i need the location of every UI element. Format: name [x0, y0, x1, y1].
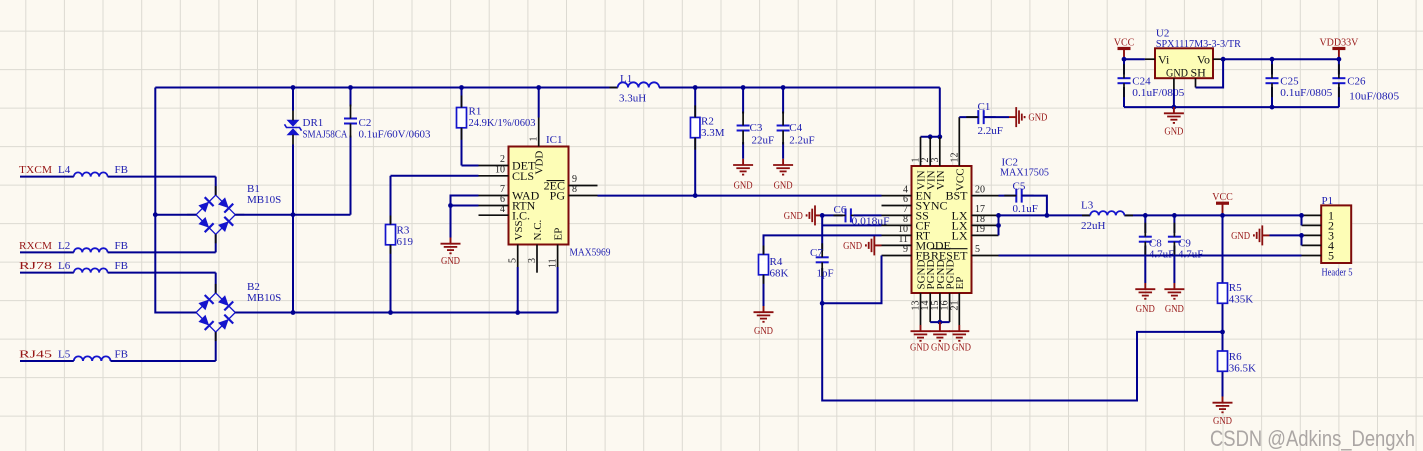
- svg-text:IC1: IC1: [546, 134, 563, 146]
- svg-text:PG: PG: [550, 189, 566, 203]
- svg-text:SH: SH: [1191, 66, 1207, 80]
- capacitor C2: [350, 88, 352, 107]
- wire rail corner down to IC2 VIN: [939, 88, 941, 137]
- svg-text:RJ45: RJ45: [19, 349, 53, 361]
- node C25 top junction: [1270, 57, 1275, 62]
- capacitor C5: [999, 195, 1017, 197]
- svg-text:24.9K/1%/0603: 24.9K/1%/0603: [469, 117, 536, 129]
- pin 10 CLS: [479, 175, 509, 177]
- svg-text:5: 5: [975, 244, 980, 255]
- node SS junction: [820, 213, 825, 218]
- node R2 bottom junction: [693, 193, 698, 198]
- svg-text:GND: GND: [1166, 66, 1188, 80]
- ground GND at C8: [1144, 283, 1146, 289]
- pin 19 LX: [972, 234, 999, 236]
- svg-text:GND: GND: [931, 343, 950, 354]
- wire top rail right: [659, 87, 940, 89]
- svg-text:GND: GND: [1028, 113, 1047, 124]
- bridge rectifier B2: [196, 293, 235, 332]
- power ground at C1: [1009, 116, 1016, 118]
- wire VSS down: [517, 267, 519, 313]
- svg-text:DR1: DR1: [303, 117, 324, 129]
- regulator U2 SPX1117 body: [1155, 48, 1213, 78]
- resistor R3: [390, 176, 392, 225]
- wire WAD/RTN tie: [451, 196, 479, 206]
- node C8 junction: [1143, 213, 1148, 218]
- svg-text:10: 10: [495, 165, 505, 176]
- svg-text:21: 21: [949, 301, 960, 311]
- ground GND at SGND: [920, 325, 922, 331]
- wire U2 GND drop: [1173, 89, 1175, 107]
- pin 7 SS: [882, 214, 912, 216]
- node R3 bottom junction: [388, 310, 393, 315]
- resistor R2: [694, 88, 696, 118]
- wire U2 bottom rail: [1124, 106, 1339, 108]
- svg-text:LX: LX: [952, 229, 968, 243]
- svg-text:RXCM: RXCM: [19, 240, 52, 252]
- wire left bus vertical: [155, 88, 196, 313]
- node Vo junction: [1221, 57, 1226, 62]
- svg-text:R2: R2: [701, 116, 714, 128]
- svg-text:SMAJ58CA: SMAJ58CA: [303, 129, 348, 141]
- svg-text:RJ78: RJ78: [19, 260, 53, 272]
- svg-text:L6: L6: [58, 260, 71, 272]
- svg-text:4: 4: [500, 204, 505, 215]
- pin 1 VDD: [538, 118, 540, 147]
- power ground at SS: [815, 214, 822, 216]
- wire pin1-pin2 tie: [1301, 215, 1303, 225]
- wire LX tie: [998, 215, 1000, 235]
- pin Vi: [1145, 58, 1155, 60]
- pin 9 FB: [882, 255, 912, 257]
- svg-text:GND: GND: [910, 343, 929, 354]
- pin 8 PG: [569, 195, 598, 197]
- TVS diode DR1: [292, 88, 294, 111]
- svg-text:GND: GND: [774, 181, 793, 192]
- node C25 bottom junction: [1270, 105, 1275, 110]
- wire DR1 column to B2 right row: [292, 215, 294, 313]
- wire TXCM to B1 top: [215, 177, 217, 196]
- svg-text:TXCM: TXCM: [19, 164, 52, 176]
- ground GND at C9: [1173, 283, 1175, 289]
- svg-text:3: 3: [527, 258, 538, 263]
- node B1 left junction: [153, 212, 158, 217]
- wire SH loop: [1196, 59, 1224, 87]
- wire R1 to IC1 DET: [462, 165, 479, 167]
- ground GND at C4: [782, 159, 784, 165]
- wire FB loop: [822, 256, 881, 304]
- pin 11 EP: [557, 245, 559, 268]
- svg-text:MAX5969: MAX5969: [570, 246, 611, 258]
- wire: [20, 272, 74, 274]
- svg-text:3.3M: 3.3M: [701, 127, 725, 139]
- pin 1 VIN: [920, 137, 922, 166]
- pin 4 EN: [882, 195, 912, 197]
- svg-text:2.2uF: 2.2uF: [789, 135, 814, 147]
- svg-text:22uF: 22uF: [752, 135, 775, 147]
- wire CLS row: [391, 175, 479, 177]
- svg-text:3.3uH: 3.3uH: [619, 93, 646, 105]
- resistor R6: [1222, 371, 1224, 396]
- svg-text:GND: GND: [734, 181, 753, 192]
- power VCC at U2: [1118, 47, 1131, 50]
- svg-text:C25: C25: [1280, 75, 1299, 87]
- svg-text:L5: L5: [58, 349, 71, 361]
- power VCC: [1216, 202, 1229, 205]
- svg-text:VIN: VIN: [935, 170, 947, 190]
- op-amp U IC2 MAX17505 body: [912, 166, 972, 293]
- svg-text:VDD33V: VDD33V: [1319, 37, 1359, 48]
- svg-text:3: 3: [930, 158, 941, 163]
- wire top rail left: [155, 87, 617, 89]
- power ground at MODE: [874, 244, 881, 246]
- svg-text:GND: GND: [1164, 127, 1183, 138]
- wire PGND tie bar: [930, 321, 949, 323]
- svg-text:8: 8: [572, 184, 577, 195]
- svg-text:R1: R1: [469, 106, 482, 118]
- node VSS junction: [515, 310, 520, 315]
- pin 3 N.C.: [536, 245, 538, 273]
- svg-text:C4: C4: [789, 122, 802, 134]
- svg-text:R4: R4: [770, 256, 783, 268]
- wire VCC to Vi: [1124, 58, 1145, 60]
- svg-text:0.1uF/0805: 0.1uF/0805: [1132, 87, 1185, 99]
- pin 1: [1302, 214, 1322, 216]
- pin 17 LX: [972, 214, 999, 216]
- wire B1 left: [155, 214, 196, 216]
- wire CF to column: [822, 224, 881, 226]
- svg-text:L3: L3: [1081, 200, 1094, 212]
- svg-text:MB10S: MB10S: [247, 194, 281, 206]
- svg-text:R3: R3: [397, 225, 410, 237]
- pin 6 SYNC: [882, 205, 912, 207]
- ground GND at IC1: [450, 238, 452, 244]
- capacitor C26: [1338, 59, 1340, 74]
- svg-text:C1: C1: [978, 101, 991, 113]
- svg-text:CSDN @Adkins_Dengxh: CSDN @Adkins_Dengxh: [1210, 426, 1415, 451]
- svg-text:68K: 68K: [770, 267, 789, 279]
- wire B2 right row to IC1 EP: [235, 312, 557, 314]
- svg-text:Vi: Vi: [1158, 52, 1170, 66]
- wire B1 right to C2 bottom: [235, 214, 350, 216]
- svg-text:R6: R6: [1229, 351, 1242, 363]
- svg-text:C24: C24: [1132, 75, 1151, 87]
- svg-text:9: 9: [903, 244, 908, 255]
- svg-text:GND: GND: [843, 241, 862, 252]
- pin Vo: [1213, 58, 1223, 60]
- op-amp U IC1 MAX5969 body: [509, 147, 569, 245]
- pin 4 I.C.: [479, 214, 509, 216]
- svg-text:20: 20: [975, 184, 985, 195]
- svg-text:FB: FB: [115, 349, 128, 361]
- wire VIN bus bar: [921, 136, 940, 138]
- svg-text:P1: P1: [1322, 195, 1334, 207]
- node R5/R6 junction: [1220, 330, 1225, 335]
- svg-text:619: 619: [397, 236, 414, 248]
- power ground at P1: [1270, 234, 1302, 236]
- svg-text:0.1uF/60V/0603: 0.1uF/60V/0603: [359, 129, 431, 141]
- svg-text:36.5K: 36.5K: [1229, 362, 1256, 374]
- svg-text:EP: EP: [553, 228, 565, 241]
- pin 13 SGND: [920, 293, 922, 325]
- svg-text:435K: 435K: [1229, 293, 1254, 305]
- wire RJ45 to B2 bottom: [215, 332, 217, 361]
- wire Vo to VDD33V: [1223, 58, 1339, 60]
- pin 8 CF: [882, 224, 912, 226]
- svg-text:SPX1117M3-3-3/TR: SPX1117M3-3-3/TR: [1156, 38, 1242, 50]
- svg-text:FB: FB: [115, 260, 128, 272]
- pin GND U2: [1173, 78, 1175, 89]
- wire: [20, 251, 74, 253]
- capacitor C3: [742, 88, 744, 114]
- svg-text:L2: L2: [58, 240, 70, 252]
- svg-text:C2: C2: [359, 117, 372, 129]
- node DR1 bottom junction: [291, 212, 296, 217]
- svg-text:12: 12: [949, 153, 960, 163]
- svg-text:CLS: CLS: [512, 169, 534, 183]
- pin 9 2EC: [569, 185, 598, 187]
- node VCC junction U2: [1122, 57, 1127, 62]
- pin 3 VIN: [939, 137, 941, 166]
- ground GND at EP: [958, 325, 960, 331]
- svg-text:10uF/0805: 10uF/0805: [1349, 90, 1400, 102]
- pin 20 BST: [972, 195, 999, 197]
- node U2 GND junction: [1172, 105, 1177, 110]
- svg-text:GND: GND: [1136, 304, 1155, 315]
- svg-text:R5: R5: [1229, 282, 1242, 294]
- svg-text:11: 11: [548, 258, 559, 268]
- wire VDD to rail: [538, 88, 540, 118]
- svg-text:C3: C3: [750, 122, 763, 134]
- pin 7 WAD: [479, 195, 509, 197]
- node C7 bottom junction: [820, 301, 825, 306]
- pin 16 PGND: [949, 293, 951, 322]
- pin 2: [1302, 224, 1322, 226]
- pin 12 VCC: [958, 117, 960, 166]
- svg-text:C6: C6: [834, 204, 847, 216]
- ground GND at U2: [1173, 107, 1175, 113]
- pin 5 RESET: [972, 255, 999, 257]
- node B2 right row junction: [291, 310, 296, 315]
- wire: [20, 360, 74, 362]
- wire EP down: [557, 267, 559, 313]
- wire pin3-pin4 tie: [1301, 235, 1303, 245]
- wire RTN to ground: [450, 206, 452, 238]
- pin SH: [1195, 78, 1197, 87]
- ground GND at R6: [1222, 397, 1224, 403]
- svg-text:GND: GND: [754, 326, 773, 337]
- svg-text:GND: GND: [784, 211, 803, 222]
- svg-text:MAX17505: MAX17505: [1000, 166, 1049, 178]
- capacitor C1: [959, 116, 978, 118]
- svg-text:5: 5: [508, 258, 519, 263]
- svg-text:C5: C5: [1013, 181, 1026, 193]
- svg-text:C26: C26: [1347, 75, 1366, 87]
- RESET overline: [931, 248, 968, 250]
- node C9 junction: [1172, 213, 1177, 218]
- pin 3: [1302, 234, 1322, 236]
- svg-text:N.C.: N.C.: [532, 219, 544, 240]
- node VDD33V junction: [1337, 57, 1342, 62]
- pin 5 VSS: [517, 245, 519, 268]
- capacitor C7: [821, 215, 823, 251]
- node P1 pin3 junction: [1299, 233, 1304, 238]
- capacitor C6: [822, 214, 843, 216]
- svg-text:EP: EP: [954, 277, 966, 290]
- capacitor C4: [782, 88, 784, 114]
- svg-text:BST: BST: [945, 189, 968, 203]
- pin 5: [1302, 255, 1322, 257]
- svg-text:0.1uF/0805: 0.1uF/0805: [1280, 87, 1333, 99]
- svg-text:1: 1: [529, 137, 540, 142]
- svg-text:VCC: VCC: [1212, 192, 1233, 203]
- pin 2 DET: [479, 165, 509, 167]
- pin 6 RTN: [479, 205, 509, 207]
- svg-text:2.2uF: 2.2uF: [978, 125, 1003, 137]
- svg-text:GND: GND: [952, 343, 971, 354]
- svg-text:FB: FB: [115, 240, 128, 252]
- node P1 pin1 junction: [1299, 213, 1304, 218]
- bridge rectifier B1: [196, 195, 235, 234]
- ground GND at R4: [763, 306, 765, 312]
- svg-text:I.C.: I.C.: [512, 208, 530, 222]
- svg-text:Header 5: Header 5: [1322, 267, 1353, 279]
- svg-text:19: 19: [975, 224, 985, 235]
- wire RJ78 to B2 top: [215, 273, 217, 293]
- pin 2 VIN: [929, 137, 931, 166]
- capacitor C9: [1173, 215, 1175, 233]
- wire RESET row to P1: [999, 255, 1302, 257]
- pin 15 PGND: [939, 293, 941, 322]
- capacitor C8: [1144, 215, 1146, 233]
- svg-text:5: 5: [1328, 249, 1334, 263]
- ground GND at C3: [742, 159, 744, 165]
- svg-text:VDD: VDD: [534, 151, 546, 175]
- wire feedback loop: [822, 303, 1222, 400]
- svg-text:VCC: VCC: [1114, 37, 1135, 48]
- svg-text:MB10S: MB10S: [247, 292, 281, 304]
- svg-text:0.1uF: 0.1uF: [1013, 203, 1038, 215]
- svg-text:1pF: 1pF: [817, 268, 834, 280]
- capacitor C24: [1123, 59, 1125, 74]
- node C5 junction: [1045, 213, 1050, 218]
- resistor R1: [461, 88, 463, 108]
- node VCC junction: [1220, 213, 1225, 218]
- power VDD33V: [1332, 47, 1345, 50]
- svg-text:GND: GND: [1165, 304, 1184, 315]
- pin 14 PGND: [929, 293, 931, 322]
- pin 10 RT: [882, 234, 912, 236]
- svg-text:GND: GND: [1231, 231, 1250, 242]
- svg-text:L4: L4: [58, 164, 71, 176]
- node RTN junction: [448, 203, 453, 208]
- pin 4: [1302, 244, 1322, 246]
- pin 18 LX: [972, 224, 999, 226]
- svg-text:VSS: VSS: [513, 220, 525, 240]
- svg-text:22uH: 22uH: [1081, 220, 1106, 232]
- svg-text:FB: FB: [115, 164, 128, 176]
- connector P1 Header 5 body: [1321, 205, 1351, 263]
- resistor R5: [1222, 215, 1224, 283]
- wire LX row to P1: [999, 214, 1091, 216]
- resistor R4: [764, 235, 882, 254]
- wire: [20, 176, 74, 178]
- wire RXCM to B1 bottom: [215, 234, 217, 253]
- svg-text:C7: C7: [810, 247, 823, 259]
- pin 21 EP: [958, 293, 960, 325]
- ground GND at PGND: [939, 322, 941, 325]
- pin 11 MODE: [882, 244, 912, 246]
- wire PG to EN: [598, 195, 882, 197]
- svg-text:GND: GND: [441, 256, 460, 267]
- capacitor C25: [1271, 59, 1273, 74]
- svg-text:VCC: VCC: [954, 168, 966, 191]
- svg-text:Vo: Vo: [1197, 52, 1210, 66]
